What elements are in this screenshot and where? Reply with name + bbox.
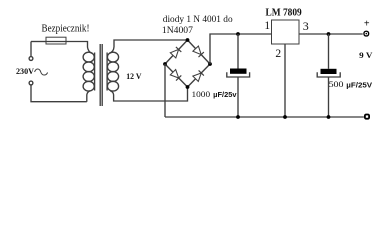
- wire secondary top to bridge: [109, 40, 187, 53]
- wire C1 bottom lead: [237, 77, 239, 117]
- node C2 bottom junction: [327, 115, 331, 119]
- svg-text:9 V: 9 V: [359, 50, 373, 60]
- wire fuse to transformer primary: [66, 42, 93, 54]
- diode D3 lower-left: [170, 70, 181, 81]
- capacitor C2 500uF: [317, 69, 340, 77]
- svg-text:Bezpiecznik!: Bezpiecznik!: [42, 22, 90, 34]
- fuse F1: [46, 37, 66, 44]
- svg-text:µF/25V: µF/25V: [346, 81, 372, 90]
- node bridge left minus: [163, 62, 167, 66]
- terminal output minus: [364, 114, 370, 120]
- wire C2 bottom lead: [328, 77, 330, 117]
- svg-text:1N4007: 1N4007: [162, 26, 193, 36]
- transformer T1 primary winding: [83, 52, 95, 91]
- svg-text:+: +: [364, 18, 370, 29]
- diode D4 lower-right: [193, 70, 204, 81]
- wire left vertical to top input terminal: [30, 42, 32, 57]
- terminal input top: [29, 57, 33, 61]
- wire bottom input terminal down and right: [31, 85, 87, 102]
- transformer core: [100, 44, 102, 106]
- svg-text:230V: 230V: [16, 67, 34, 76]
- svg-text:12 V: 12 V: [126, 71, 142, 81]
- node regulator pin 2 junction: [283, 115, 287, 119]
- label 1000 uF/25v: [192, 89, 237, 99]
- svg-text:LM 7809: LM 7809: [266, 7, 302, 18]
- wire bridge minus down to ground rail: [164, 64, 166, 117]
- node bridge bottom AC: [186, 85, 190, 89]
- bridge diagonal wire bottom-right: [188, 64, 211, 87]
- wire C1 top lead: [237, 34, 239, 69]
- svg-text:3: 3: [303, 19, 309, 33]
- node C1 bottom junction: [236, 115, 240, 119]
- bridge diagonal wire top-right: [188, 40, 211, 64]
- node bridge right plus: [208, 62, 212, 66]
- wire regulator pin 2 to ground rail: [284, 44, 286, 117]
- svg-text:2: 2: [275, 48, 281, 60]
- diode D1 upper-left: [170, 47, 181, 58]
- wire C2 top lead: [328, 34, 330, 69]
- svg-text:1000: 1000: [192, 89, 211, 99]
- wire top-left horizontal to fuse: [31, 41, 46, 43]
- bridge diagonal wire bottom-left: [165, 64, 188, 87]
- label 500 uF/25V: [329, 79, 373, 89]
- node cap C1 top junction: [236, 32, 240, 36]
- svg-text:500: 500: [329, 79, 344, 89]
- wire rise into primary bottom: [87, 91, 91, 102]
- capacitor C1 1000uF: [227, 69, 250, 78]
- wire regulator pin 3 to output: [299, 33, 363, 35]
- diode D2 upper-right: [193, 46, 204, 57]
- node cap C2 top junction: [327, 32, 331, 36]
- regulator U1 LM7809 box: [272, 20, 300, 44]
- ground rail bottom wire: [165, 116, 364, 118]
- svg-text:1: 1: [264, 20, 270, 32]
- transformer T1 secondary winding: [107, 52, 119, 91]
- AC sine symbol: [35, 69, 48, 75]
- bridge diagonal wire top-left: [165, 40, 188, 64]
- svg-text:µF/25v: µF/25v: [213, 90, 236, 99]
- terminal output plus: [363, 31, 369, 37]
- wire bridge plus up and right to regulator pin 1: [210, 34, 272, 64]
- node bridge top AC: [186, 38, 190, 42]
- terminal input bottom: [29, 81, 33, 85]
- wire secondary bottom to bridge AC node: [110, 87, 187, 101]
- svg-text:diody 1 N 4001 do: diody 1 N 4001 do: [163, 14, 233, 24]
